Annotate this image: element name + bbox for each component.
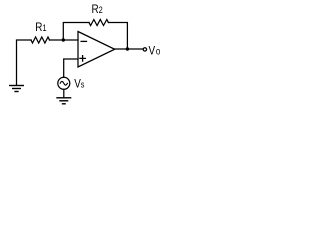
- node: inverting input junction: [62, 38, 65, 41]
- resistor R1: [31, 37, 50, 43]
- op-amp minus sign: [81, 40, 86, 42]
- svg-text:Vo: Vo: [149, 45, 161, 58]
- ground (left): [10, 86, 24, 92]
- wire: feedback right segment down to output: [108, 23, 127, 50]
- svg-text:R2: R2: [92, 3, 104, 16]
- ground (below source): [57, 98, 71, 104]
- op-amp U1: [78, 32, 115, 68]
- resistor R2: [89, 20, 108, 26]
- AC source VS: [58, 77, 70, 89]
- wire: left input branch: [17, 40, 32, 85]
- wire: non-inverting input to source: [64, 59, 78, 77]
- op-amp plus sign: [80, 56, 85, 61]
- wire: R1 to op-amp inverting input: [50, 39, 79, 41]
- wire: feedback left vertical: [63, 23, 89, 41]
- svg-text:R1: R1: [35, 21, 47, 34]
- svg-text:Vs: Vs: [74, 78, 84, 91]
- wire: source to ground: [63, 89, 65, 97]
- AC source sine wave: [60, 81, 67, 85]
- terminal: output open circle: [143, 48, 146, 51]
- node: output junction: [126, 47, 129, 50]
- wire: op-amp output: [115, 48, 144, 50]
